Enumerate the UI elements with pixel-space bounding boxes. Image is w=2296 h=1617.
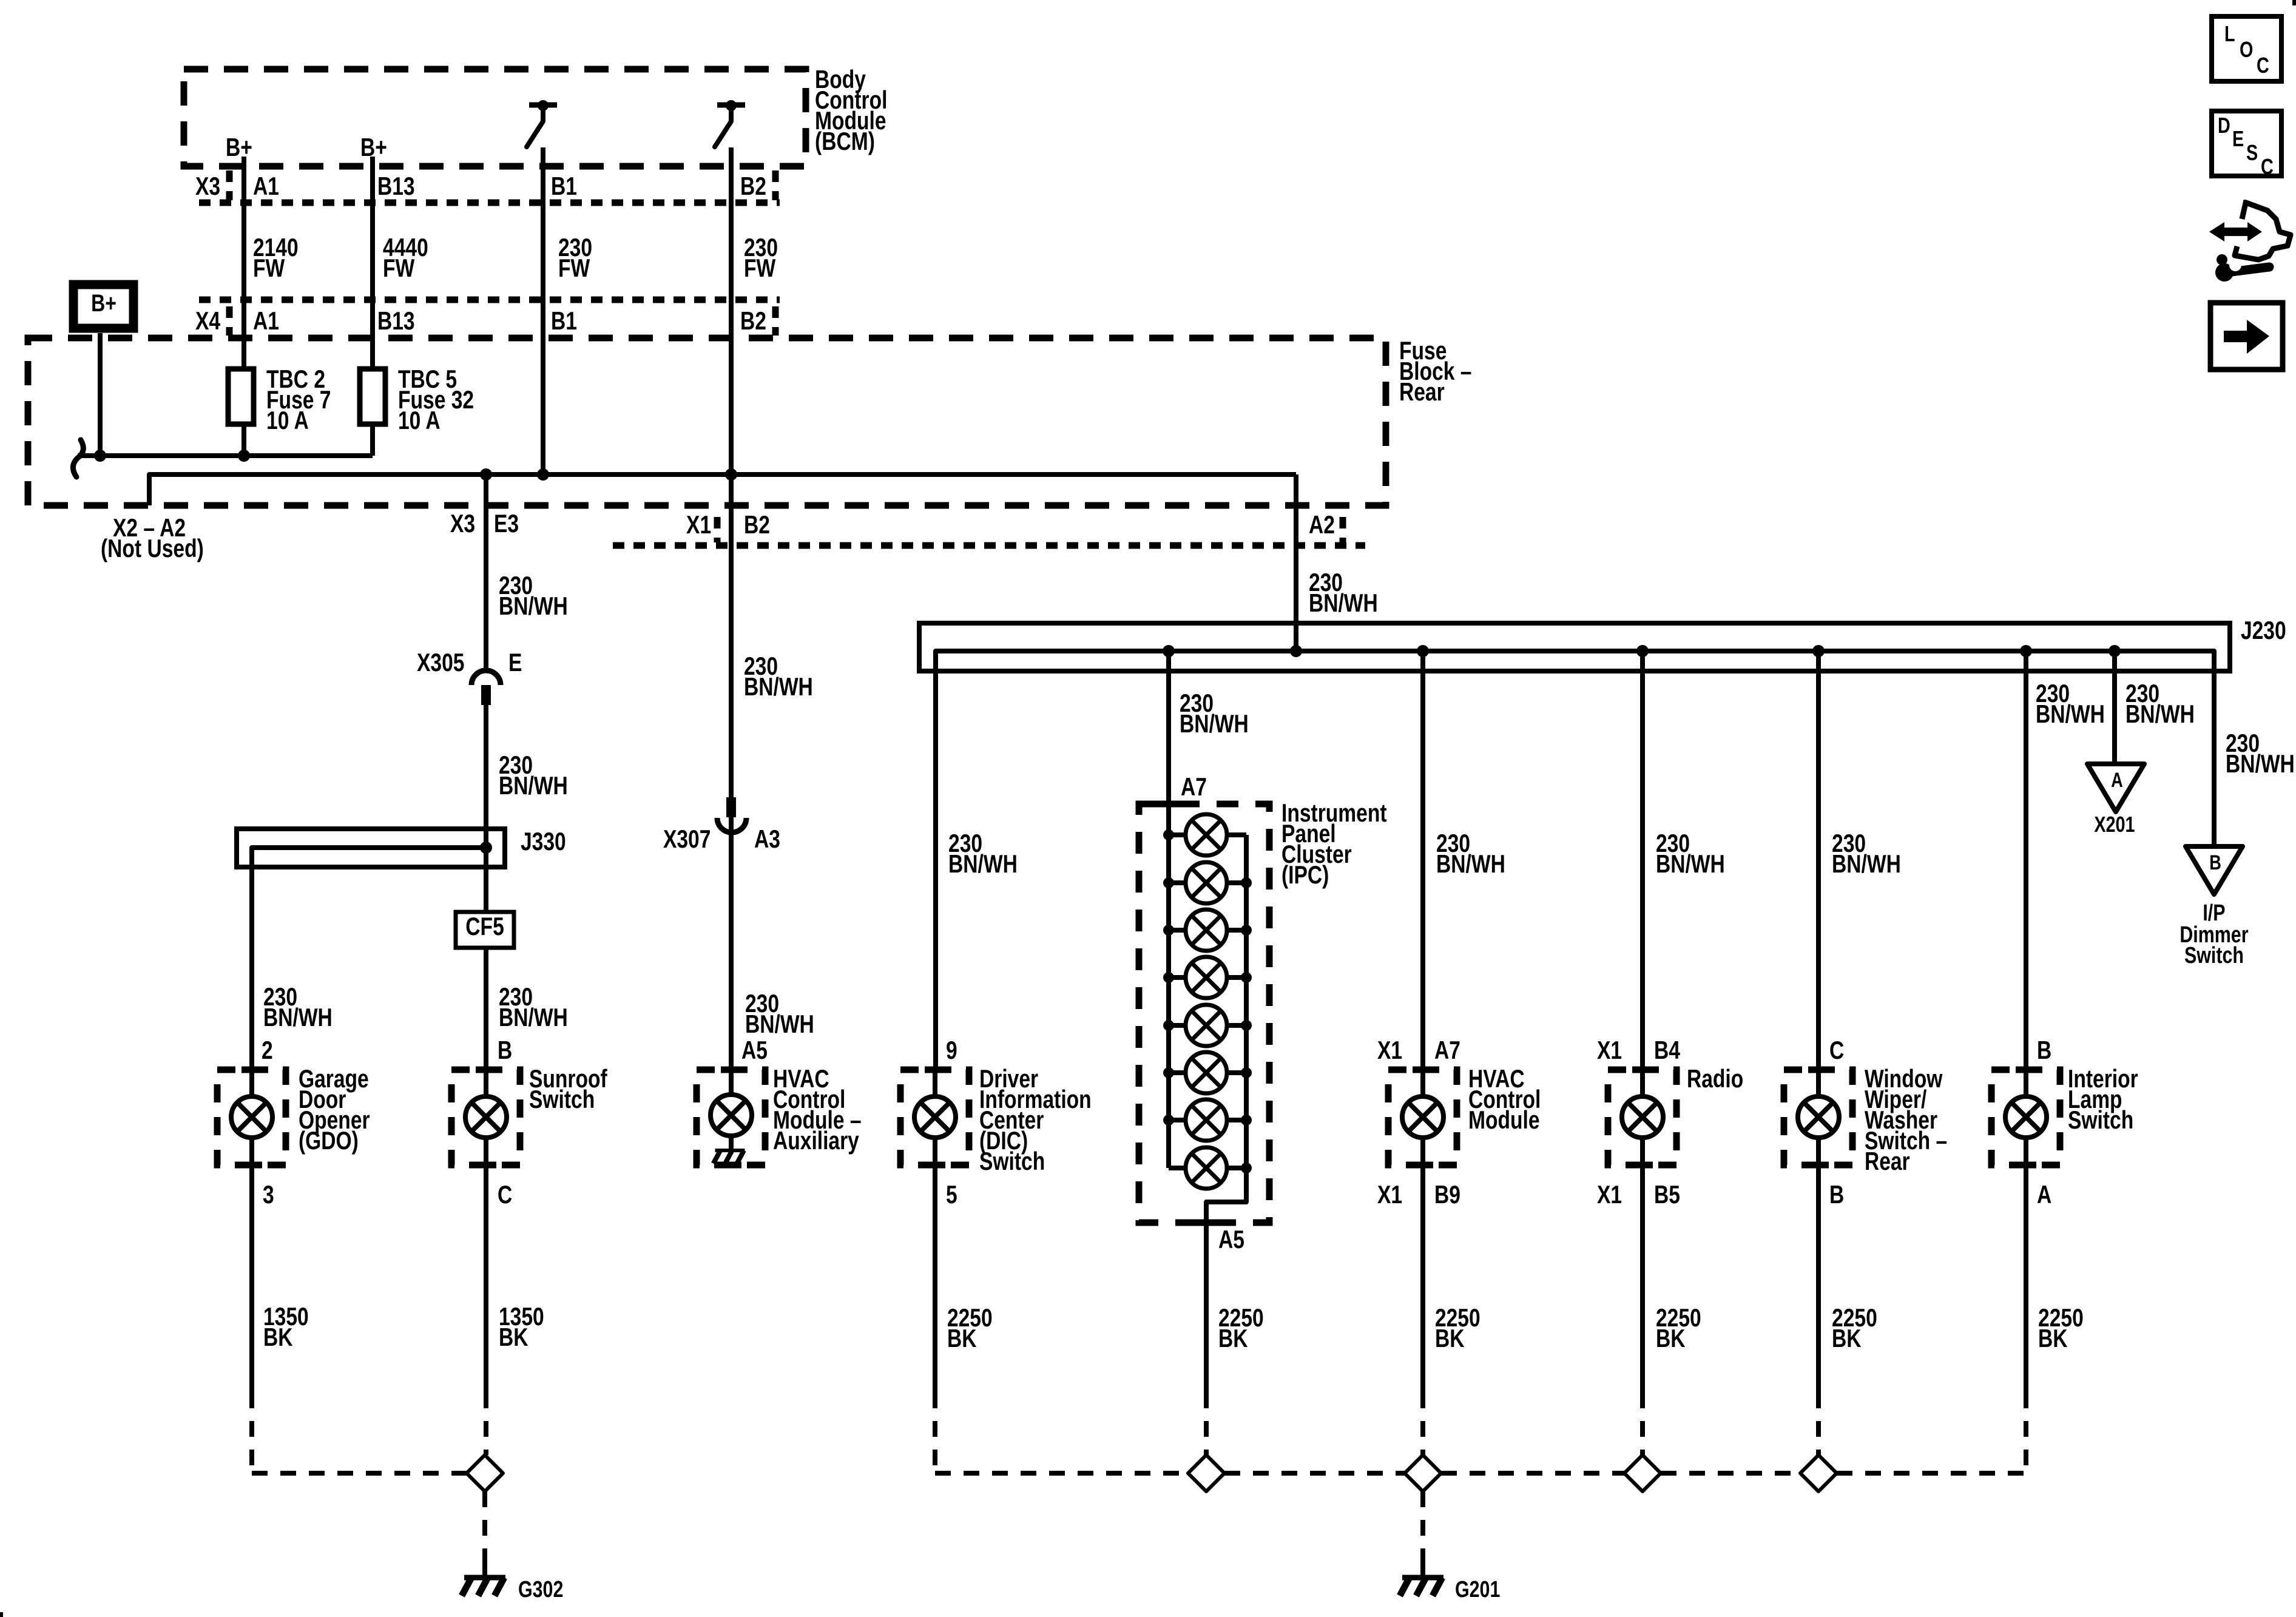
wire: wiper ground lead: [1816, 1165, 1821, 1393]
svg-text:B5: B5: [1654, 1181, 1680, 1209]
label: pin A7 (HVAC): [1434, 1037, 1460, 1065]
svg-text:9: 9: [946, 1037, 957, 1065]
svg-text:C: C: [2261, 154, 2274, 179]
inline connector X305: [471, 670, 501, 705]
label: pin E (X305): [508, 649, 522, 677]
svg-text:A2: A2: [1309, 511, 1335, 539]
switch inside BCM (B1 output): [527, 100, 557, 147]
splice pack J330 inner bus: [252, 848, 486, 867]
label: J230: [2241, 617, 2286, 645]
label: Fuse Block - Rear: [1399, 337, 1471, 407]
svg-text:B1: B1: [551, 173, 577, 201]
IPC box bottom tick at A5: [1196, 1220, 1217, 1226]
label: 230 BN/WH (DIC): [948, 830, 1018, 879]
module box: Instrument Panel Cluster: [1139, 804, 1269, 1223]
splice S3 (under radio): [1624, 1455, 1661, 1491]
svg-text:A7: A7: [1181, 774, 1207, 802]
label: X3: [195, 173, 220, 201]
lamp: HVAC aux backlight: [711, 1095, 752, 1136]
wire: radio lamp leads: [1640, 1070, 1645, 1165]
wire: HVAC aux lamp leads: [729, 1070, 734, 1149]
label: pin X1 (HVAC bottom): [1377, 1181, 1402, 1209]
connector X4 right tick: [772, 306, 779, 336]
svg-text:FW: FW: [558, 255, 590, 283]
label: J330: [521, 828, 566, 856]
svg-text:B13: B13: [377, 308, 415, 336]
label: 230 BN/WH (IPC): [1180, 690, 1249, 738]
svg-text:X307: X307: [663, 826, 711, 854]
label: pin B9 (HVAC): [1434, 1181, 1460, 1209]
wire: IPC ground dashed: [1204, 1393, 1209, 1455]
connector A2 tick: [1340, 517, 1346, 542]
module box: Fuse Block - Rear: [28, 338, 1386, 505]
component box: Interior Lamp Switch: [1991, 1070, 2060, 1165]
connector row X1-A2 dotted line: [613, 542, 1365, 549]
svg-text:(GDO): (GDO): [299, 1127, 359, 1155]
ground G201: [1400, 1556, 1443, 1596]
wire: IPC drop: [1166, 651, 1171, 804]
power symbol B+: [73, 285, 133, 328]
svg-text:BN/WH: BN/WH: [2226, 751, 2295, 778]
svg-text:J230: J230: [2241, 617, 2286, 645]
wire: B1 from switch to distribution line: [541, 147, 545, 474]
wire: GDO lamp leads: [249, 1070, 254, 1165]
label: Window Wiper/Washer Switch - Rear: [1865, 1065, 1947, 1176]
label: X4: [195, 308, 220, 336]
wire: HVAC lamp leads: [1420, 1070, 1425, 1165]
wire: B13 from BCM to fuse 32: [370, 157, 375, 371]
splice pack J230 inner bus: [936, 651, 2214, 671]
wire: fuse 7 to bus line: [241, 422, 246, 456]
svg-text:B2: B2: [740, 308, 766, 336]
wire: splice S3 to S4 dashed: [1661, 1471, 1800, 1476]
svg-text:L: L: [2224, 21, 2235, 46]
junction dot E3: [480, 468, 492, 481]
svg-text:O: O: [2240, 37, 2253, 62]
component box: DIC Switch: [900, 1070, 969, 1165]
svg-text:G302: G302: [518, 1577, 563, 1602]
module box: Body Control Module (BCM): [184, 69, 806, 166]
svg-text:CF5: CF5: [465, 913, 504, 941]
lamp: DIC backlight: [914, 1096, 956, 1138]
label: pin X1 (HVAC top): [1377, 1037, 1402, 1065]
svg-text:FW: FW: [744, 255, 775, 283]
label: 230 BN/WH (HVAC): [1436, 830, 1505, 879]
label: pin B2 (X1): [744, 511, 770, 539]
wire: interior lamp drop: [2024, 651, 2028, 1070]
svg-text:B: B: [1829, 1181, 1844, 1209]
junction dot B2: [725, 468, 737, 481]
svg-text:BN/WH: BN/WH: [1180, 711, 1249, 738]
wire: lamp switch ground dashed: [2024, 1393, 2028, 1473]
fuse TBC 2 Fuse 7 10 A: [228, 369, 254, 424]
svg-text:A1: A1: [253, 173, 279, 201]
svg-text:BK: BK: [1832, 1325, 1862, 1353]
wire: HVAC ground lead: [1420, 1165, 1425, 1393]
connector X3 tick: [226, 170, 233, 200]
page mark bottom-left: [0, 1612, 3, 1617]
svg-text:J330: J330: [521, 828, 566, 856]
junction dot lamp: [2020, 645, 2032, 657]
label: 230 BN/WH (B2 upper): [744, 653, 813, 701]
wire: E3 drop from distribution line: [484, 474, 488, 668]
label: pin A5 (HVAC aux): [741, 1037, 768, 1065]
wire: fuse 32 to bus line: [370, 422, 375, 456]
svg-text:B: B: [2209, 851, 2221, 874]
label: X201: [2094, 812, 2135, 837]
svg-text:(IPC): (IPC): [1281, 862, 1329, 890]
connector X3 right tick: [772, 170, 779, 200]
svg-text:G201: G201: [1455, 1577, 1500, 1602]
label: X307: [663, 826, 711, 854]
svg-text:5: 5: [946, 1181, 957, 1209]
wire: S2 to ground G201 dashed: [1420, 1491, 1425, 1556]
svg-text:B1: B1: [551, 308, 577, 336]
svg-text:Switch: Switch: [529, 1086, 595, 1114]
svg-text:C: C: [2257, 53, 2269, 78]
svg-text:10 A: 10 A: [266, 407, 309, 435]
wire: IPC right bus: [1206, 835, 1246, 1223]
wire: GDO ground dashed: [252, 1393, 467, 1473]
svg-text:Auxiliary: Auxiliary: [773, 1127, 859, 1155]
svg-text:B+: B+: [91, 289, 116, 317]
svg-text:X1: X1: [1597, 1181, 1622, 1209]
label: 1350 BK (GDO): [263, 1303, 309, 1352]
label: 230 BN/WH (lamp): [2036, 680, 2105, 729]
wire: splice S4 to lamp switch dashed: [1837, 1471, 2026, 1476]
svg-text:B13: B13: [377, 173, 415, 201]
svg-text:BK: BK: [1435, 1325, 1465, 1353]
svg-text:A5: A5: [741, 1037, 768, 1065]
wire: GDO ground lead: [249, 1165, 254, 1393]
svg-text:E: E: [2232, 126, 2244, 151]
icon: arrow box: [2210, 303, 2283, 370]
label: 230 BN/WH (X201): [2125, 680, 2195, 729]
svg-text:BN/WH: BN/WH: [499, 593, 568, 621]
label: pin B (lamp switch): [2037, 1037, 2051, 1065]
svg-text:BN/WH: BN/WH: [1436, 851, 1505, 879]
wire: radio drop: [1640, 651, 1645, 1070]
label: 230 BN/WH (sunroof): [499, 984, 568, 1032]
svg-text:10 A: 10 A: [398, 407, 441, 435]
svg-text:Rear: Rear: [1865, 1148, 1910, 1176]
wire: sunroof branch through J330: [484, 829, 488, 912]
wire: DIC drop: [933, 651, 938, 1070]
label: Garage Door Opener (GDO): [299, 1065, 370, 1155]
svg-text:BN/WH: BN/WH: [948, 851, 1018, 879]
svg-text:FW: FW: [383, 255, 414, 283]
label: pin C (wiper): [1829, 1037, 1844, 1065]
lamps: IPC backlight bulbs x8: [1169, 814, 1246, 1189]
label: 4440 FW: [383, 234, 428, 283]
wire: radio ground lead: [1640, 1165, 1645, 1393]
wire: B+ to splice line: [98, 333, 103, 456]
label: pin B1 (X4): [551, 308, 577, 336]
svg-text:BK: BK: [263, 1324, 293, 1352]
lamp: HVAC module backlight: [1402, 1096, 1443, 1138]
svg-text:B4: B4: [1654, 1037, 1680, 1065]
wire: sunroof ground dashed: [484, 1393, 488, 1455]
junction dot radio: [1636, 645, 1649, 657]
svg-text:BN/WH: BN/WH: [1309, 590, 1378, 618]
svg-text:BN/WH: BN/WH: [745, 1011, 814, 1039]
svg-text:BN/WH: BN/WH: [499, 1004, 568, 1032]
svg-text:Switch: Switch: [979, 1148, 1045, 1176]
svg-text:2: 2: [262, 1037, 273, 1065]
svg-text:X1: X1: [1377, 1037, 1402, 1065]
svg-text:X1: X1: [1377, 1181, 1402, 1209]
label: HVAC Control Module - Auxiliary: [773, 1065, 862, 1155]
component box: Sunroof Switch: [451, 1070, 520, 1165]
component box: Window Wiper/Washer Switch - Rear: [1784, 1070, 1852, 1165]
junction dots IPC buses: [1163, 829, 1252, 1173]
svg-text:B: B: [498, 1037, 512, 1065]
svg-text:Switch: Switch: [2184, 943, 2244, 968]
wire: DIC ground lead: [933, 1165, 937, 1393]
inline connector X307: [717, 797, 746, 832]
label: 2250 BK (lamp switch): [2038, 1305, 2084, 1353]
svg-text:C: C: [1829, 1037, 1844, 1065]
svg-text:X1: X1: [686, 511, 711, 539]
wire: IPC ground lead: [1204, 1223, 1209, 1393]
junction dot IPC: [1163, 645, 1175, 657]
wire: B+ feed line: [78, 453, 373, 458]
lamp: radio backlight: [1622, 1096, 1663, 1138]
wire: wiper lamp leads: [1816, 1070, 1821, 1165]
junction dot J330: [480, 842, 492, 854]
label: G201: [1455, 1577, 1500, 1602]
label: I/P Dimmer Switch: [2180, 900, 2248, 968]
wire: GDO branch from J330: [249, 867, 254, 1070]
label: 2140 FW: [253, 234, 299, 283]
hook symbol (wire continues): [73, 440, 83, 477]
wire: wiper switch drop: [1816, 651, 1821, 1070]
svg-text:BN/WH: BN/WH: [2036, 701, 2105, 729]
label: pin 9 (DIC): [946, 1037, 957, 1065]
svg-text:FW: FW: [253, 255, 285, 283]
wire: HVAC module drop: [1420, 651, 1425, 1070]
splice S1 (under IPC): [1188, 1455, 1224, 1491]
fuse TBC 5 Fuse 32 10 A: [360, 369, 385, 424]
ground inside HVAC aux: [714, 1150, 745, 1164]
svg-text:S: S: [2246, 140, 2258, 165]
label: 230 BN/WH (radio): [1656, 830, 1725, 879]
component box: HVAC Control Module - Auxiliary: [697, 1070, 765, 1165]
splice pack J230 outer box: [919, 623, 2230, 671]
label: 2250 BK (IPC): [1218, 1305, 1264, 1353]
splice S2 (under HVAC): [1405, 1455, 1441, 1491]
svg-text:X1: X1: [1597, 1037, 1622, 1065]
label: pin B5 (radio): [1654, 1181, 1680, 1209]
junction dot HVAC: [1417, 645, 1429, 657]
svg-text:E: E: [508, 649, 522, 677]
wire: X201 drop: [2112, 651, 2117, 765]
off-page connector B (I/P dimmer): [2186, 846, 2243, 894]
label: pin B4 (radio): [1654, 1037, 1680, 1065]
label: pin A1 (X3): [253, 173, 279, 201]
label: TBC 2 Fuse 7 10 A: [266, 366, 331, 435]
junction dot fuse7 line: [238, 450, 250, 462]
label: Driver Information Center (DIC) Switch: [979, 1065, 1092, 1176]
svg-text:(Not Used): (Not Used): [101, 535, 204, 563]
connector row X3 bottom dotted line: [199, 200, 780, 206]
component box: HVAC Control Module: [1388, 1070, 1457, 1165]
icon: harness routing (car outline with arrow and wrench): [2209, 200, 2291, 282]
junction dot B1: [537, 468, 549, 481]
svg-text:BK: BK: [947, 1325, 977, 1353]
svg-text:D: D: [2218, 113, 2230, 138]
label: pin B1 (X3): [551, 173, 577, 201]
wire: HVAC ground dashed: [1420, 1393, 1425, 1455]
svg-text:A7: A7: [1434, 1037, 1460, 1065]
svg-text:B9: B9: [1434, 1181, 1460, 1209]
label: Sunroof Switch: [529, 1065, 607, 1114]
wire: A2 drop to J230: [1294, 474, 1298, 651]
svg-text:BN/WH: BN/WH: [263, 1004, 333, 1032]
splice S4 (under wiper): [1800, 1455, 1837, 1491]
wire: lamp switch ground lead: [2024, 1165, 2028, 1393]
label: X3 (E3 row): [450, 510, 475, 538]
label: pin B (sunroof): [498, 1037, 512, 1065]
wire: DIC ground dashed: [935, 1393, 1188, 1473]
label: 2250 BK (HVAC): [1435, 1305, 1481, 1353]
inline fuse CF5 box: [456, 912, 514, 948]
svg-text:BN/WH: BN/WH: [499, 772, 568, 800]
junction dot wiper: [1812, 645, 1825, 657]
wire: dimmer drop: [2212, 671, 2217, 846]
label: B+ pin A1: [226, 134, 252, 162]
svg-text:X3: X3: [450, 510, 475, 538]
svg-text:A: A: [2037, 1181, 2051, 1209]
label: 230 BN/WH (E3 lower): [499, 752, 568, 800]
junction dot X201: [2109, 645, 2121, 657]
label: 230 BN/WH (B2 lower): [745, 990, 814, 1039]
label: pin A3 (X307): [754, 826, 780, 854]
lamp: sunroof switch backlight: [465, 1096, 507, 1138]
label: pin X1 (radio top): [1597, 1037, 1622, 1065]
label: Radio: [1687, 1065, 1743, 1093]
label: 230 BN/WH (A2): [1309, 569, 1378, 618]
label: Interior Lamp Switch: [2068, 1065, 2138, 1135]
svg-text:E3: E3: [494, 510, 519, 538]
label: 230 BN/WH (GDO): [263, 984, 333, 1032]
svg-text:BN/WH: BN/WH: [744, 673, 813, 701]
svg-text:X305: X305: [417, 649, 464, 677]
label: 2250 BK (DIC): [947, 1305, 993, 1353]
wire: B2 from switch down to HVAC aux: [729, 147, 734, 1070]
svg-text:B2: B2: [740, 173, 766, 201]
label: 1350 BK (sunroof): [499, 1303, 544, 1352]
label: pin 5 (DIC): [946, 1181, 957, 1209]
label: pin B2 (X4): [740, 308, 766, 336]
label: Instrument Panel Cluster (IPC): [1281, 800, 1387, 890]
wire: X305 to J330: [484, 705, 488, 829]
label: pin X1 (radio bottom): [1597, 1181, 1622, 1209]
svg-text:B+: B+: [226, 134, 252, 162]
svg-text:B2: B2: [744, 511, 770, 539]
svg-text:X4: X4: [195, 308, 220, 336]
svg-text:A3: A3: [754, 826, 780, 854]
wire: IPC left bus: [1166, 804, 1171, 1168]
svg-text:Switch: Switch: [2068, 1107, 2133, 1135]
label: pin C (sunroof): [498, 1181, 512, 1209]
label: pin B13 (X3): [377, 173, 415, 201]
connector X1 tick: [714, 517, 721, 542]
label: pin 2 (GDO): [262, 1037, 273, 1065]
svg-text:3: 3: [263, 1181, 274, 1209]
label: 230 BN/WH (wiper): [1832, 830, 1901, 879]
label: 230 FW (B2): [744, 234, 778, 283]
icon: LOC box: [2212, 16, 2281, 81]
label: pin B (wiper): [1829, 1181, 1844, 1209]
lamp: wiper switch backlight: [1798, 1096, 1839, 1138]
svg-text:A: A: [2111, 768, 2123, 792]
svg-text:Radio: Radio: [1687, 1065, 1743, 1093]
svg-text:(BCM): (BCM): [815, 128, 875, 156]
connector row X4 top dotted line: [199, 297, 780, 303]
component box: Radio: [1608, 1070, 1676, 1165]
svg-text:BK: BK: [1656, 1325, 1686, 1353]
label: pin A (lamp switch): [2037, 1181, 2051, 1209]
svg-text:BN/WH: BN/WH: [1656, 851, 1725, 879]
label: pin 3 (GDO): [263, 1181, 274, 1209]
splice pack J330 outer box: [237, 829, 505, 867]
wire: splice S2 to S3 dashed: [1441, 1471, 1624, 1476]
splice S302: [467, 1455, 503, 1491]
label: pin E3: [494, 510, 519, 538]
ground G302: [462, 1556, 505, 1596]
label: pin B13 (X4): [377, 308, 415, 336]
wire: A1 from BCM to fuse 7: [241, 157, 246, 371]
label: X2 - A2 (Not Used): [101, 515, 204, 563]
label: 2250 BK (wiper): [1832, 1305, 1877, 1353]
svg-text:BK: BK: [2038, 1325, 2068, 1353]
svg-text:A5: A5: [1218, 1226, 1244, 1254]
svg-text:BN/WH: BN/WH: [1832, 851, 1901, 879]
label: pin A2: [1309, 511, 1335, 539]
switch inside BCM (B2 output): [715, 100, 745, 147]
label: 230 BN/WH (dimmer): [2226, 730, 2295, 778]
svg-text:BK: BK: [1218, 1325, 1248, 1353]
page mark top-right: [2292, 0, 2296, 5]
component box: Garage Door Opener: [217, 1070, 286, 1165]
svg-text:A1: A1: [253, 308, 279, 336]
lamp: GDO backlight: [231, 1096, 272, 1138]
label: 230 BN/WH (E3 upper): [499, 572, 568, 621]
wire: 230 distribution line: [149, 474, 1296, 505]
label: pin A7 (IPC): [1181, 774, 1207, 802]
connector X4 tick: [226, 306, 233, 336]
junction dot J230-A2: [1290, 645, 1302, 657]
off-page connector A (X201): [2087, 764, 2144, 812]
svg-text:C: C: [498, 1181, 512, 1209]
wire: radio ground dashed: [1640, 1393, 1645, 1455]
wire: wiper ground dashed: [1816, 1393, 1821, 1455]
svg-text:BK: BK: [499, 1324, 528, 1352]
label: pin A1 (X4): [253, 308, 279, 336]
svg-text:Module: Module: [1468, 1107, 1540, 1135]
lamp: interior lamp switch backlight: [2005, 1096, 2047, 1138]
label: X1: [686, 511, 711, 539]
svg-text:Rear: Rear: [1399, 379, 1445, 407]
wire: CF5 to sunroof switch: [484, 948, 488, 1070]
label: 2250 BK (radio): [1656, 1305, 1701, 1353]
label: X305: [417, 649, 464, 677]
wire: splice S1 to S2 dashed: [1224, 1471, 1405, 1476]
wire: splice to G302: [482, 1491, 487, 1556]
svg-text:X201: X201: [2094, 812, 2135, 837]
wire: lamp switch leads: [2024, 1070, 2028, 1165]
